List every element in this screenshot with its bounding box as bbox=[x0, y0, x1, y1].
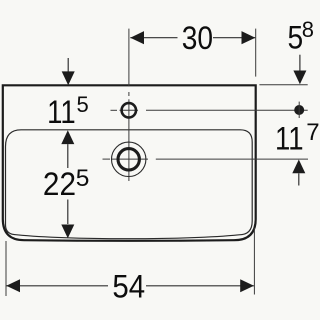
dim 22.5 arrow down (bottom) bbox=[67, 200, 69, 225]
dim 11.5/22.5 arrow up bbox=[61, 130, 74, 144]
dim 11.5 label bbox=[47, 95, 76, 130]
dim 11.7 arrow up bbox=[292, 160, 305, 174]
dim 11.5 arrow down (top) bbox=[67, 58, 69, 72]
drain inner circle bbox=[118, 149, 139, 170]
washbasin bowl outline bbox=[6, 130, 253, 239]
dim 5.8 arrow down bbox=[299, 55, 301, 71]
svg-text:30: 30 bbox=[182, 21, 213, 56]
svg-text:7: 7 bbox=[306, 119, 319, 146]
svg-text:11: 11 bbox=[275, 122, 304, 157]
dim 30 extension line right bbox=[255, 29, 257, 77]
svg-text:8: 8 bbox=[302, 17, 314, 42]
svg-text:54: 54 bbox=[112, 268, 145, 304]
dim 54 line bbox=[6, 285, 254, 287]
rear edge extension right bbox=[259, 84, 307, 86]
dim 54 extension left bbox=[5, 241, 7, 296]
tap hole axis horizontal bbox=[111, 109, 308, 111]
svg-text:22: 22 bbox=[43, 166, 76, 202]
washbasin outer outline bbox=[3, 85, 256, 240]
dim 30 line bbox=[130, 37, 255, 39]
dim 54 arrow left bbox=[6, 279, 20, 292]
tap hole centerline vertical bbox=[128, 29, 130, 181]
dim 5.8 label bbox=[288, 21, 304, 56]
dim 54 arrow right bbox=[240, 279, 254, 292]
dim 11.7 label bbox=[275, 122, 304, 157]
drain outer circle bbox=[112, 142, 146, 176]
dim 30 label bbox=[182, 21, 213, 56]
dim 22.5 label bbox=[43, 166, 76, 202]
dim 30 arrow left bbox=[130, 31, 144, 44]
tap position dot bbox=[294, 105, 304, 115]
svg-text:11: 11 bbox=[47, 95, 76, 130]
dim 54 extension right bbox=[253, 228, 255, 295]
drain axis horizontal bbox=[103, 158, 309, 160]
tap hole bbox=[122, 103, 136, 117]
dim 54 label bbox=[112, 268, 145, 304]
svg-text:5: 5 bbox=[77, 92, 89, 117]
dim 30 arrow right bbox=[242, 31, 256, 44]
svg-text:5: 5 bbox=[288, 21, 304, 56]
svg-text:5: 5 bbox=[76, 165, 90, 192]
